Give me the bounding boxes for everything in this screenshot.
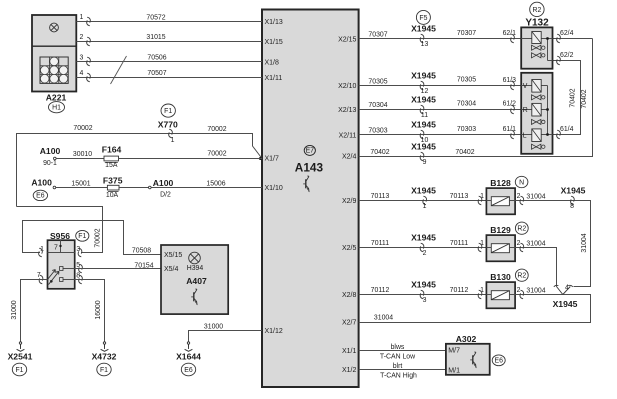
svg-text:15A: 15A (105, 162, 118, 169)
F5 location code above X1945 column (416, 10, 430, 24)
connector break at B130 pin 1 (478, 287, 484, 299)
svg-text:X1945: X1945 (411, 71, 436, 81)
svg-text:70002: 70002 (94, 228, 101, 247)
solenoid valve block Y132 (521, 18, 552, 154)
connector break at Y132 62/2 (557, 56, 561, 65)
svg-text:2: 2 (517, 240, 521, 247)
svg-text:70307: 70307 (457, 30, 476, 37)
H1 location code (49, 102, 65, 113)
lamp H394 inside A407 (187, 252, 204, 272)
svg-text:M/7: M/7 (448, 347, 460, 354)
svg-text:61/4: 61/4 (560, 126, 574, 133)
svg-text:F5: F5 (419, 15, 427, 22)
svg-text:31004: 31004 (526, 287, 545, 294)
svg-text:A407: A407 (186, 276, 207, 286)
svg-text:70002: 70002 (73, 125, 92, 132)
svg-text:F375: F375 (103, 176, 123, 186)
connector break at Y132 61/1 (503, 126, 517, 139)
svg-text:L: L (523, 132, 527, 139)
terminal A100 D/2 (149, 178, 174, 198)
svg-text:X1945: X1945 (411, 95, 436, 105)
svg-text:70402: 70402 (581, 89, 588, 108)
svg-text:X1945: X1945 (553, 299, 578, 309)
solenoid coil R (532, 103, 541, 116)
connector break at S956 pin 1 (39, 248, 43, 257)
wire 15006 F375 via terminal A100 D/2 to X1/10 (119, 181, 262, 188)
svg-text:70113: 70113 (450, 193, 469, 200)
solenoid coil L (532, 129, 541, 142)
wire 31004 B128:2 to X1945:8 (515, 193, 590, 287)
F1 location code at X4732 (97, 363, 111, 376)
connector X770 (158, 120, 178, 145)
svg-text:70304: 70304 (457, 100, 476, 107)
connector X1945 pin 4 junction (553, 285, 578, 309)
connector X1945 pin 9 (411, 142, 436, 166)
svg-text:70305: 70305 (457, 77, 476, 84)
S956 pin numbers 1 7 3 5 8 7 (37, 244, 81, 279)
svg-text:16000: 16000 (95, 300, 102, 319)
terminal A100 90-1 (40, 146, 61, 167)
svg-text:X2/5: X2/5 (342, 245, 357, 252)
Y132 internal wiring and junctions (521, 37, 552, 136)
svg-text:F1: F1 (78, 233, 86, 240)
svg-text:X2/10: X2/10 (338, 83, 356, 90)
svg-text:T-CAN High: T-CAN High (380, 372, 417, 379)
connector X1945 pin 10 (411, 120, 436, 144)
svg-text:X1945: X1945 (411, 233, 436, 243)
connector break at S956 pin 8 (79, 275, 83, 284)
svg-text:30010: 30010 (73, 151, 92, 158)
svg-text:70305: 70305 (368, 78, 387, 85)
svg-text:X1/1: X1/1 (342, 348, 357, 355)
svg-text:15001: 15001 (71, 181, 90, 188)
wire 70506 A221:3 to X1/8 (76, 54, 262, 61)
svg-text:5: 5 (76, 262, 80, 269)
wire 70002 F164 to X1/7 (119, 151, 263, 159)
E6 location code at A302 (492, 355, 505, 366)
svg-text:X2/15: X2/15 (338, 36, 356, 43)
svg-text:X1644: X1644 (176, 351, 201, 361)
transistor symbol in A302 (470, 352, 476, 367)
transistor symbol in A407 (191, 289, 197, 304)
connector break at B129 pin 1 (478, 240, 484, 252)
svg-text:X1/11: X1/11 (265, 75, 283, 82)
svg-text:H1: H1 (52, 105, 61, 112)
valve symbol V (532, 95, 546, 100)
svg-text:90-1: 90-1 (43, 160, 57, 167)
svg-text:A302: A302 (456, 334, 477, 344)
svg-text:2: 2 (517, 193, 521, 200)
wire T-CAN Low X1/1 to A302 M/7 (359, 344, 446, 360)
svg-text:70572: 70572 (146, 14, 165, 21)
svg-text:70002: 70002 (207, 126, 226, 133)
A143 right pin labels X2/15 X2/10 X2/13 X2/11 X2/4 X2/9 X2/5 X2/8 X2/7 X1/1 X1/2 (338, 36, 356, 374)
connector break on wire 70506 (87, 57, 91, 66)
connector break at Y132 62/1 (503, 30, 517, 43)
svg-text:H394: H394 (187, 265, 204, 272)
wire 70304 X2/13 to Y132 61/2 (359, 100, 522, 109)
wire 31004 B129:2 down to junction (515, 240, 556, 287)
svg-text:2: 2 (80, 34, 84, 41)
svg-text:70154: 70154 (134, 263, 153, 270)
connector break at Y132 61/2 (503, 101, 517, 114)
svg-text:9: 9 (423, 159, 427, 166)
N location code at B128 (515, 176, 528, 187)
svg-text:E6: E6 (36, 193, 45, 200)
wire 70154 S956:5 to A407 X5/4 (75, 263, 161, 270)
A407 pin labels X5/15 X5/4 (164, 252, 182, 273)
R2 location code above Y132 (530, 2, 544, 16)
svg-text:10A: 10A (106, 192, 119, 199)
svg-text:A143: A143 (295, 160, 324, 174)
svg-text:3: 3 (423, 297, 427, 304)
connector X1945 pin 13 (411, 24, 436, 48)
connector break at Y132 61/3 (503, 77, 517, 90)
valve symbol L (532, 144, 546, 149)
svg-text:31004: 31004 (581, 233, 588, 252)
switch unit A221 box (32, 15, 76, 92)
connector break at S956 pin 5 (79, 264, 83, 273)
connector X1945 pin 12 (411, 71, 436, 95)
svg-text:70303: 70303 (368, 128, 387, 135)
svg-text:N: N (519, 180, 524, 187)
wire 70305 X2/10 to Y132 61/3 (359, 77, 522, 86)
svg-text:X1945: X1945 (411, 280, 436, 290)
svg-text:A100: A100 (31, 178, 52, 188)
wire 31015 A221:2 to X1/15 (76, 34, 262, 42)
svg-text:15006: 15006 (206, 181, 225, 188)
svg-text:X1/12: X1/12 (265, 328, 283, 335)
svg-text:X5/4: X5/4 (164, 266, 179, 273)
twisted-pair slash across wires 70506/70507 (111, 56, 127, 84)
op-amp/ECU internal symbol A143 (295, 145, 324, 191)
svg-text:2: 2 (517, 287, 521, 294)
svg-text:R2: R2 (532, 7, 541, 14)
sensor B130 box (486, 272, 515, 308)
ground connector X4732 (92, 342, 117, 361)
keypad symbol in A221 (40, 57, 68, 83)
connector break at B128 pin 2 (520, 196, 524, 205)
svg-text:X2/9: X2/9 (342, 198, 357, 205)
wire from S956:1 to A407 X5/15 (70508) (23, 221, 162, 255)
wire 70112 X2/8 to B130:1 (359, 287, 487, 294)
E6 location code (33, 190, 47, 200)
fuse F164 15A (102, 144, 122, 169)
sensor B129 box (486, 225, 515, 261)
svg-text:X1/7: X1/7 (265, 156, 280, 163)
svg-text:13: 13 (421, 41, 429, 48)
wire 70402 X2/4 up to Y132 62/4 (359, 39, 593, 157)
svg-text:1: 1 (423, 203, 427, 210)
svg-text:V: V (523, 83, 528, 90)
svg-text:X1/13: X1/13 (265, 19, 283, 26)
svg-text:70002: 70002 (207, 151, 226, 158)
svg-text:X2/8: X2/8 (342, 292, 357, 299)
svg-text:X2541: X2541 (8, 351, 33, 361)
connector break on wire 70507 (87, 73, 91, 82)
svg-text:blrt: blrt (393, 363, 403, 370)
F1 location code at S956 (76, 230, 89, 241)
svg-text:70402: 70402 (370, 149, 389, 156)
svg-text:70402: 70402 (569, 88, 576, 107)
svg-text:E6: E6 (184, 367, 193, 374)
svg-text:31004: 31004 (374, 315, 393, 322)
R2 location code at B130 (515, 269, 528, 281)
svg-text:70402: 70402 (455, 149, 474, 156)
svg-text:X2/4: X2/4 (342, 154, 357, 161)
svg-text:E7: E7 (306, 148, 315, 155)
wire 16000 S956:8 to ground X4732 (75, 280, 105, 348)
wire Y132 62/4 out to right vertical (553, 30, 593, 43)
R2 location code at B129 (515, 222, 528, 234)
wire 31000 S956:7 to ground X2541 (11, 280, 47, 348)
wire 15001 A100 to F375 (56, 181, 108, 188)
valve symbol R (532, 119, 546, 124)
sensor B128 box (486, 178, 515, 214)
svg-text:1: 1 (80, 14, 84, 21)
svg-text:R2: R2 (517, 226, 526, 233)
F1 location code at X2541 (12, 363, 26, 376)
svg-text:Y132: Y132 (525, 18, 549, 29)
svg-text:8: 8 (76, 272, 80, 279)
connector X1945 pin 1 (411, 186, 436, 210)
svg-text:B129: B129 (490, 225, 511, 235)
svg-text:F1: F1 (164, 108, 172, 115)
svg-text:70113: 70113 (371, 193, 390, 200)
svg-text:X4732: X4732 (92, 351, 117, 361)
connector X1945 pin 8 (561, 186, 586, 210)
ground connector X2541 (8, 342, 33, 361)
svg-text:A100: A100 (153, 178, 174, 188)
svg-text:31015: 31015 (146, 34, 165, 41)
svg-text:3: 3 (80, 54, 84, 61)
svg-text:31004: 31004 (526, 193, 545, 200)
terminal A100 E6 (31, 178, 55, 189)
connector break at S956 pin 7 (39, 275, 43, 284)
svg-text:70307: 70307 (368, 32, 387, 39)
svg-text:blws: blws (391, 344, 405, 351)
svg-text:X770: X770 (158, 120, 178, 130)
E6 location code at X1644 (181, 363, 195, 376)
F1 location code above X770 (161, 104, 175, 117)
CAN module A302 box (446, 334, 490, 375)
svg-text:X1945: X1945 (411, 186, 436, 196)
S956 internal contacts (47, 240, 75, 284)
svg-text:70111: 70111 (450, 240, 468, 247)
svg-text:F164: F164 (102, 144, 122, 154)
connector break at Y132 61/4 (557, 130, 561, 139)
svg-text:70303: 70303 (457, 126, 476, 133)
svg-text:4: 4 (80, 70, 84, 77)
svg-text:70111: 70111 (371, 240, 389, 247)
svg-text:X1945: X1945 (411, 120, 436, 130)
svg-text:M/1: M/1 (448, 367, 460, 374)
svg-text:R2: R2 (517, 273, 526, 280)
wire 70402 Y132 62/2 down to 61/4 (553, 52, 581, 135)
svg-text:7: 7 (54, 244, 58, 251)
svg-text:A100: A100 (40, 146, 61, 156)
svg-text:X1945: X1945 (411, 142, 436, 152)
connector break on wire 70572 (87, 17, 91, 26)
wire 70113 X2/9 to B128:1 (359, 193, 487, 200)
switch S956 box (48, 240, 75, 289)
wire T-CAN High X1/2 to A302 M/1 (359, 363, 446, 379)
svg-text:70506: 70506 (147, 55, 166, 62)
connector break at B128 pin 1 (478, 193, 484, 205)
fuse F375 10A (103, 176, 123, 199)
svg-text:70507: 70507 (147, 70, 166, 77)
svg-text:70508: 70508 (132, 248, 151, 255)
valve symbols top section (532, 45, 546, 58)
svg-text:T-CAN Low: T-CAN Low (380, 353, 415, 360)
svg-text:11: 11 (421, 112, 428, 119)
svg-text:F1: F1 (15, 367, 23, 374)
connector break on wire 31015 (87, 37, 91, 46)
lamp unit A407 box (161, 245, 228, 314)
connector break at B130 pin 2 (520, 290, 524, 299)
svg-text:X2/13: X2/13 (338, 107, 356, 114)
svg-text:X5/15: X5/15 (164, 252, 182, 259)
svg-text:70304: 70304 (368, 102, 387, 109)
svg-text:31000: 31000 (11, 300, 18, 319)
svg-text:62/4: 62/4 (560, 30, 574, 37)
svg-text:R: R (523, 107, 528, 114)
svg-text:D/2: D/2 (160, 191, 171, 198)
connector break at S956 pin 3 (78, 248, 82, 257)
svg-text:4: 4 (565, 285, 569, 292)
svg-text:B128: B128 (490, 178, 511, 188)
wire 70111 X2/5 to B129:1 (359, 240, 487, 247)
connector X1945 pin 2 (411, 233, 436, 257)
svg-text:31000: 31000 (204, 323, 223, 330)
svg-text:X1/8: X1/8 (265, 59, 280, 66)
ECU A143 box (262, 10, 359, 388)
lamp symbol in A221 (50, 23, 59, 32)
svg-text:2: 2 (423, 250, 427, 257)
svg-text:B130: B130 (490, 272, 511, 282)
A143 left pin labels X1/13 X1/15 X1/8 X1/11 X1/7 X1/10 X1/12 (265, 19, 283, 335)
svg-text:62/2: 62/2 (560, 52, 574, 59)
wire 70002 from S956:3 up to top rail (17, 207, 103, 253)
ground connector X1644 (176, 342, 201, 361)
wire 70303 X2/11 to Y132 61/1 (359, 126, 522, 135)
connector X1945 pin 3 (411, 280, 436, 304)
solenoid coil V (532, 80, 541, 93)
wire 30010 A100 to F164 (56, 151, 104, 158)
connector break at B129 pin 2 (520, 243, 524, 252)
svg-text:X1945: X1945 (411, 24, 436, 34)
svg-text:F1: F1 (100, 367, 108, 374)
connector X1945 pin 11 (411, 95, 436, 119)
wire 31000 to X1/12 and ground X1644 (189, 323, 263, 347)
junction dot at X1/7 (259, 157, 262, 160)
svg-text:A221: A221 (46, 93, 67, 103)
svg-text:70112: 70112 (371, 287, 390, 294)
wire 70572 A221:1 to X1/13 (76, 14, 262, 22)
wire 70307 X2/15 to Y132 62/1 (359, 30, 522, 39)
wire 70507 A221:4 to X1/11 (76, 70, 262, 78)
svg-text:S956: S956 (50, 231, 70, 241)
svg-text:X1945: X1945 (561, 186, 586, 196)
svg-text:1: 1 (171, 137, 175, 144)
svg-text:70112: 70112 (450, 287, 469, 294)
svg-text:X1/15: X1/15 (265, 39, 283, 46)
wire 31004 B130:2 back to X2/7 (359, 287, 591, 323)
svg-text:31004: 31004 (526, 240, 545, 247)
svg-text:X2/11: X2/11 (339, 132, 357, 139)
svg-text:X2/7: X2/7 (342, 320, 357, 327)
svg-text:8: 8 (570, 203, 574, 210)
svg-text:X1/2: X1/2 (342, 367, 357, 374)
svg-text:X1/10: X1/10 (265, 185, 283, 192)
wire 70002 top rail to X1/7 (17, 125, 263, 207)
solenoid coil 1 in Y132 (532, 32, 541, 44)
svg-text:E6: E6 (494, 358, 503, 365)
